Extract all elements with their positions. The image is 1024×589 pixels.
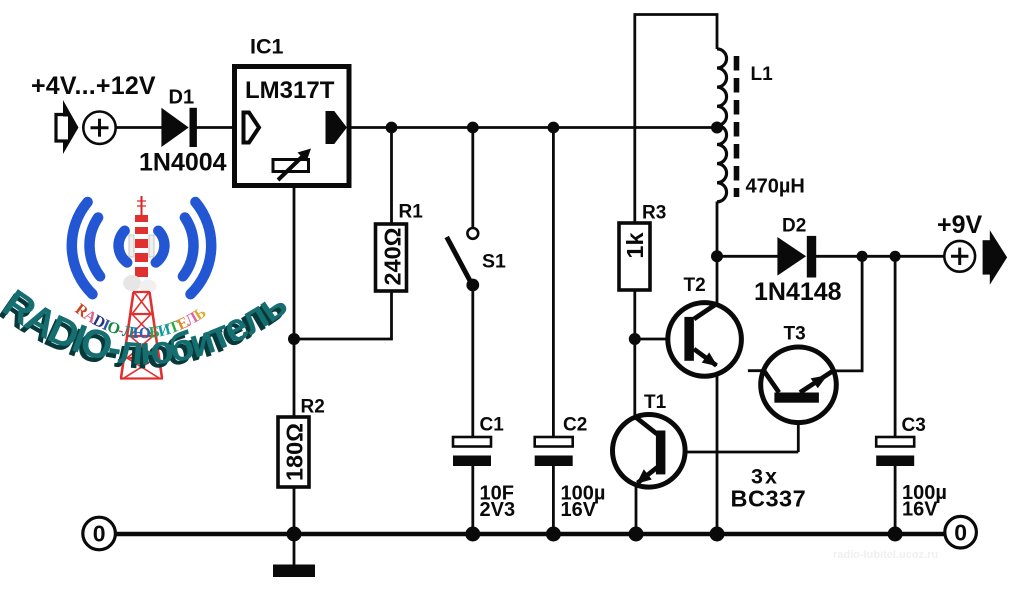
junction D2 anode node (711, 250, 723, 262)
wire T3 base down (797, 402, 800, 452)
wire T2 emitter down (716, 365, 719, 534)
svg-text:C2: C2 (563, 415, 587, 436)
junction top rail S1 (467, 122, 479, 134)
junction rail T1 (629, 527, 644, 542)
junction C3 node (890, 251, 901, 262)
transistor T2 (668, 303, 742, 377)
output connector arrow (983, 230, 1008, 285)
svg-text:+4V...+12V: +4V...+12V (31, 72, 156, 100)
diode D2 (777, 236, 816, 278)
wire R1 top (390, 128, 393, 225)
wire T3 collector stub (748, 369, 765, 372)
resistor R3 (619, 223, 650, 290)
svg-text:16V: 16V (561, 499, 597, 521)
wire S1 to C1 (471, 290, 474, 437)
logo blue signal arcs (72, 202, 211, 294)
svg-text:T2: T2 (684, 275, 706, 296)
svg-text:1N4148: 1N4148 (754, 278, 842, 306)
svg-text:IC1: IC1 (250, 35, 284, 59)
junction L1 tap (711, 122, 723, 134)
wire R2 bottom to 0 rail (293, 487, 296, 534)
svg-text:+9V: +9V (937, 211, 983, 239)
output plus terminal (944, 241, 975, 272)
wire T3 emitter to output rail (833, 256, 863, 371)
svg-text:BC337: BC337 (731, 486, 807, 512)
input connector J1 (56, 100, 79, 154)
wire C3 top (894, 256, 897, 437)
junction top rail C2 (548, 122, 560, 134)
junction top rail R1 (386, 122, 398, 134)
resistor R1 (376, 224, 407, 291)
junction adj node (288, 333, 300, 345)
wire D2 anode (717, 255, 778, 258)
wire C2 top (552, 128, 555, 437)
svg-text:1k: 1k (622, 232, 648, 259)
wire T1 base to T3 base (665, 451, 798, 454)
wire bottom 0 rail (116, 532, 945, 536)
svg-text:240Ω: 240Ω (380, 227, 406, 285)
svg-text:T1: T1 (644, 392, 667, 413)
wire adj node to R2 (293, 339, 296, 417)
junction rail T2 (710, 527, 725, 542)
capacitor C2 (535, 437, 573, 466)
junction rail R2 (287, 527, 302, 542)
wire R1 bottom to adj node (294, 291, 392, 339)
svg-text:LM317T: LM317T (245, 77, 335, 104)
logo antenna tower (120, 196, 163, 379)
switch S1 (447, 228, 479, 291)
inductor L1 (717, 49, 737, 202)
wire top rail IC1 to L1 tap (349, 126, 717, 129)
svg-text:R2: R2 (301, 397, 325, 418)
wire D2 node to T2 collector (716, 256, 719, 304)
transistor T3 (761, 347, 837, 423)
junction T3 emitter node (857, 251, 868, 262)
diode D1 (161, 108, 197, 147)
svg-text:16V: 16V (902, 499, 938, 521)
svg-text:S1: S1 (482, 251, 506, 273)
wire R3 top loop to L1 top (635, 15, 717, 224)
svg-text:0: 0 (93, 521, 106, 547)
wire S1 top (471, 128, 474, 229)
svg-text:L1: L1 (751, 64, 774, 85)
terminal 0 left (83, 517, 116, 550)
svg-text:radio-lubitel.ucoz.ru: radio-lubitel.ucoz.ru (833, 549, 938, 561)
wire C2 bottom (552, 465, 555, 534)
wire C3 bottom (894, 464, 897, 534)
svg-text:D1: D1 (169, 87, 195, 109)
wire IC1 adj pin down (293, 186, 296, 339)
svg-text:C1: C1 (480, 415, 505, 436)
svg-text:D2: D2 (782, 216, 806, 237)
wire T2 base (635, 338, 685, 341)
svg-text:C3: C3 (902, 415, 926, 436)
svg-text:180Ω: 180Ω (282, 423, 308, 481)
capacitor C1 (453, 437, 491, 466)
junction rail C2 (546, 527, 561, 542)
ground (273, 565, 315, 578)
terminal 0 right (945, 516, 977, 548)
wire R3 bottom (633, 290, 636, 339)
input plus terminal (83, 112, 115, 144)
wire C1 bottom (471, 465, 474, 534)
svg-text:R3: R3 (642, 203, 666, 224)
svg-text:470µH: 470µH (746, 176, 805, 198)
junction rail C1 (465, 527, 480, 542)
op-amp regulator IC1 (235, 67, 350, 186)
svg-text:1N4004: 1N4004 (139, 149, 227, 177)
wire D2 cathode to +9V (815, 255, 944, 258)
wire input to D1 (115, 126, 162, 129)
wire T1 emitter down (635, 484, 638, 534)
junction R3 T2 base node (629, 333, 641, 345)
capacitor C3 (876, 437, 914, 466)
wire ground stub (293, 534, 296, 566)
resistor R2 (278, 417, 309, 487)
svg-text:R1: R1 (399, 202, 424, 223)
svg-text:2V3: 2V3 (480, 499, 516, 521)
junction rail C3 (888, 527, 903, 542)
wire T1 collector up to node (633, 339, 636, 417)
wire L1 bottom to D2 node (716, 202, 719, 257)
svg-text:0: 0 (954, 519, 967, 545)
svg-text:T3: T3 (784, 324, 806, 345)
logo big teal curved text (0, 281, 294, 377)
transistor T1 (613, 415, 686, 488)
wire D1 to IC1 (196, 126, 234, 129)
